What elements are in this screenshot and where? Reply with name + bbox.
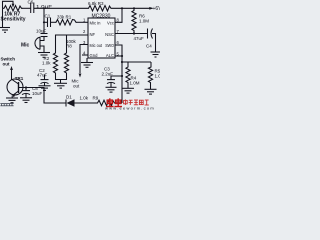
svg-text:1.0k: 1.0k bbox=[42, 61, 51, 66]
wire D1 to R9 bbox=[75, 102, 97, 104]
wire C3 branch bbox=[111, 76, 122, 79]
svg-text:R8: R8 bbox=[66, 44, 72, 49]
svg-text:1.0M: 1.0M bbox=[139, 19, 149, 24]
wire R8 drop from pin2 wire bbox=[66, 35, 68, 52]
wire R1 to pin1 bbox=[77, 21, 88, 23]
transistor TR1 bbox=[7, 79, 23, 97]
svg-text:10uF: 10uF bbox=[32, 91, 43, 96]
svg-text:Vcc: Vcc bbox=[107, 21, 114, 26]
ground (C2) bbox=[39, 86, 51, 91]
svg-text:NSC: NSC bbox=[105, 32, 114, 37]
watermark small red char e bbox=[145, 100, 149, 105]
svg-text:TR1: TR1 bbox=[15, 76, 24, 81]
wire emitter to ground bbox=[11, 96, 13, 98]
wire pin3 Mic out bbox=[80, 45, 88, 74]
svg-text:1.0: 1.0 bbox=[155, 74, 161, 79]
svg-text:Sensitivity: Sensitivity bbox=[1, 17, 26, 23]
capacitor C2 bbox=[41, 75, 49, 86]
arrow switch out bbox=[10, 66, 13, 70]
svg-text:+6V: +6V bbox=[153, 6, 161, 12]
wire R3 to +6V bbox=[113, 7, 153, 9]
svg-text:D1: D1 bbox=[66, 95, 72, 100]
potentiometer R7 bbox=[3, 1, 24, 11]
wire TR1 base to D1 rail bbox=[19, 88, 66, 104]
svg-text:1.0M: 1.0M bbox=[130, 80, 140, 85]
resistor R6 bbox=[132, 8, 136, 33]
ground (C3) bbox=[106, 87, 117, 92]
capacitor C3 bbox=[107, 80, 115, 87]
capacitor C8 bbox=[22, 88, 30, 98]
wire IC gnd bbox=[86, 58, 88, 62]
svg-text:Mic in: Mic in bbox=[90, 21, 102, 26]
ground (R2 R8) bbox=[54, 83, 67, 88]
resistor R9 bbox=[96, 100, 116, 106]
node: junction Vcc drop bbox=[121, 7, 123, 9]
ground (R4) bbox=[122, 88, 134, 93]
wire pin6 SWO down bbox=[115, 45, 122, 103]
ground (mic) bbox=[38, 53, 50, 58]
resistor R1 bbox=[55, 20, 77, 26]
node junction rail drop bbox=[43, 7, 45, 9]
resistor R5 bbox=[148, 62, 152, 89]
capacitor C6 bbox=[31, 3, 34, 14]
wire pot left to ground bbox=[2, 8, 4, 27]
svg-text:ALC: ALC bbox=[106, 53, 114, 58]
resistor R8 bbox=[64, 52, 68, 75]
ground (TR1 emitter) bbox=[6, 98, 18, 103]
svg-text:out: out bbox=[3, 62, 10, 67]
wire rail drop to C1 node bbox=[43, 8, 45, 33]
watermark small red char d bbox=[139, 100, 143, 104]
svg-text:C6: C6 bbox=[28, 0, 34, 5]
svg-text:1.0k: 1.0k bbox=[80, 96, 89, 101]
wire mic to ground bbox=[40, 46, 44, 52]
svg-text:47uF: 47uF bbox=[134, 36, 145, 41]
svg-text:33k R1: 33k R1 bbox=[57, 15, 72, 20]
resistor R3 bbox=[87, 6, 113, 12]
watermark small red char a bbox=[124, 99, 128, 105]
wire pin8 Vcc up to rail bbox=[115, 8, 122, 22]
node junction alc jog bbox=[121, 61, 123, 63]
svg-text:MC2830: MC2830 bbox=[92, 14, 111, 20]
wire node to C1 bbox=[44, 21, 48, 23]
watermark logo char 2 (red) bbox=[114, 98, 122, 106]
svg-text:SWO: SWO bbox=[105, 43, 114, 48]
watermark logo char 1 (red) bbox=[106, 98, 114, 106]
svg-text:47uF: 47uF bbox=[37, 73, 48, 78]
svg-text:C1: C1 bbox=[45, 14, 51, 19]
wire C4 to ground bbox=[152, 34, 156, 52]
node junction R6 bottom bbox=[133, 32, 135, 34]
wire pin4 stub bbox=[82, 54, 88, 56]
ground (R5) bbox=[145, 89, 157, 94]
wire pot to C6 bbox=[23, 7, 31, 9]
svg-text:Mic: Mic bbox=[21, 43, 30, 49]
wire cap to mic bbox=[40, 37, 44, 41]
node junction pin5 bbox=[121, 55, 123, 57]
capacitor C7 10uF (mic feed) bbox=[41, 34, 48, 37]
ground (C8) bbox=[20, 98, 32, 103]
ground (IC) bbox=[81, 63, 93, 68]
node junction at C1 branch bbox=[43, 21, 45, 23]
svg-text:Mic out: Mic out bbox=[90, 43, 103, 48]
svg-text:R9: R9 bbox=[93, 96, 99, 101]
node junction C8 bbox=[25, 86, 27, 88]
wire collector to switch out bbox=[11, 70, 14, 80]
arrow mic out terminal bbox=[79, 74, 82, 78]
resistor R4 bbox=[126, 62, 130, 88]
wire pin7 NSC to C4 bbox=[115, 33, 148, 35]
wire C1 to R1 bbox=[51, 21, 56, 23]
svg-text:www.eeworm.com: www.eeworm.com bbox=[105, 105, 155, 110]
arrow +6V terminal bbox=[149, 7, 153, 10]
ground (pot) bbox=[0, 28, 10, 33]
wire pin5 ALC staircase bbox=[115, 55, 122, 57]
IC U1 MC2830 box bbox=[88, 18, 115, 58]
svg-text:Gnd: Gnd bbox=[90, 53, 99, 58]
wire C6 to R3 (top rail) bbox=[34, 7, 87, 9]
node junction C3 bbox=[121, 75, 123, 77]
watermark small red char c bbox=[134, 100, 138, 105]
svg-text:2.2uF: 2.2uF bbox=[102, 72, 114, 77]
microphone Mic bbox=[35, 37, 40, 50]
svg-text:10uF: 10uF bbox=[36, 29, 47, 34]
svg-text:NF: NF bbox=[90, 32, 96, 37]
watermark small red char b bbox=[129, 100, 133, 105]
diode D1 bbox=[66, 99, 75, 106]
capacitor C4 bbox=[148, 29, 153, 39]
capacitor C1 bbox=[48, 18, 51, 28]
ground (C4) bbox=[151, 52, 161, 57]
svg-text:6.8k R3: 6.8k R3 bbox=[88, 1, 104, 6]
wire pin2 NF bbox=[56, 35, 89, 52]
wire resistor bottoms bar bbox=[56, 75, 67, 80]
node: junction R6 top bbox=[133, 7, 135, 9]
wire R9 to SWO line bbox=[116, 102, 123, 104]
svg-text:C4: C4 bbox=[146, 44, 152, 49]
resistor R2 bbox=[53, 52, 57, 75]
wire bar to ground bbox=[60, 80, 62, 84]
watermark bottom-left dark marks bbox=[0, 104, 13, 106]
svg-text:out: out bbox=[73, 84, 80, 89]
